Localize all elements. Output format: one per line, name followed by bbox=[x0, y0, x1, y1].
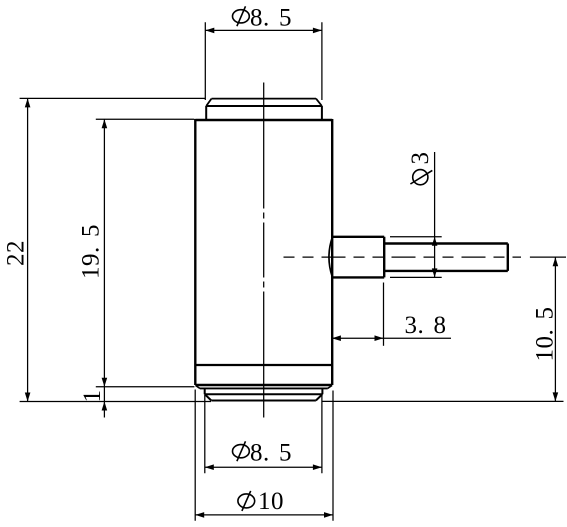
svg-text:8. 5: 8. 5 bbox=[250, 5, 292, 32]
svg-text:3. 8: 3. 8 bbox=[405, 312, 447, 339]
svg-text:22: 22 bbox=[3, 240, 30, 266]
svg-text:10. 5: 10. 5 bbox=[532, 307, 559, 362]
svg-text:19. 5: 19. 5 bbox=[78, 224, 105, 279]
svg-text:8. 5: 8. 5 bbox=[250, 439, 292, 466]
svg-text:3: 3 bbox=[407, 152, 434, 165]
svg-text:1: 1 bbox=[79, 390, 106, 403]
svg-text:10: 10 bbox=[258, 488, 284, 515]
